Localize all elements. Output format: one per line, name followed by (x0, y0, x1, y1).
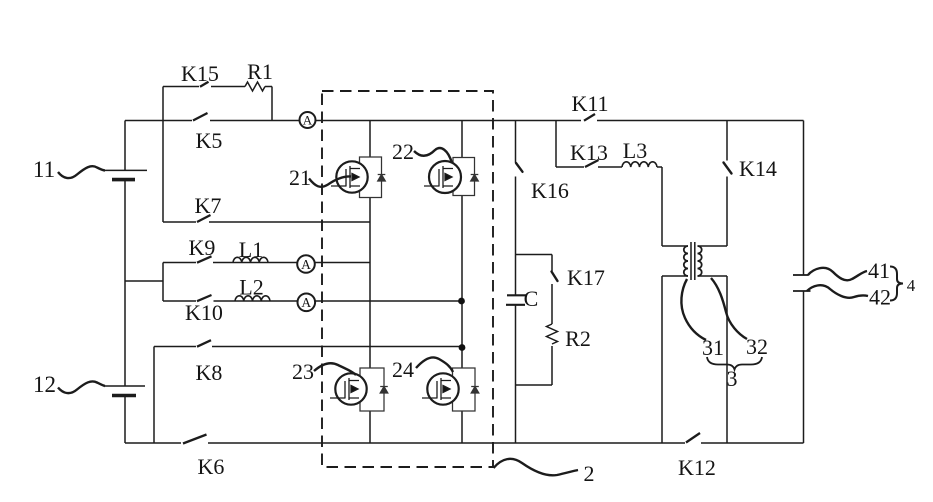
svg-text:2: 2 (584, 461, 595, 486)
battery 11 plates (105, 170, 147, 179)
transistor 22 (rect + diode) (453, 158, 478, 196)
svg-text:4: 4 (907, 276, 916, 295)
leader squiggle to 42 (807, 285, 868, 298)
output terminal 42 tick (793, 290, 811, 292)
transistor 23 circle + IGBT glyph (330, 373, 367, 404)
wire: K10 row to junction on right leg (163, 300, 462, 302)
svg-text:24: 24 (392, 357, 414, 382)
svg-text:32: 32 (746, 334, 768, 359)
svg-text:R1: R1 (247, 59, 273, 84)
wire: vertical x272 branch right leg (271, 87, 273, 121)
wire: bridge left leg (369, 121, 371, 444)
leader squiggle to 12 (58, 381, 105, 393)
wire: left rail (battery string) (124, 121, 126, 444)
switch K8 blade (197, 340, 211, 347)
transistor 21 circle + IGBT glyph (331, 161, 368, 192)
leader squiggle to 22 (414, 148, 452, 163)
leader squiggle to 24 (416, 357, 453, 372)
transistor 21 (rect + diode) (360, 157, 386, 198)
wire: fork stub from rail to K9/K10 rows (125, 263, 163, 302)
wire: K13/L3 row (556, 166, 662, 168)
switch K13 blade (585, 160, 599, 167)
inductor L3 (622, 162, 657, 167)
wire: right rail (803, 121, 805, 444)
leader squiggle to 32 (711, 278, 747, 339)
capacitor C plates (506, 295, 526, 305)
wire: K15/R1 precharge branch (163, 86, 272, 88)
transformer T primary winding (684, 246, 688, 276)
svg-text:K13: K13 (570, 140, 608, 165)
switch K14 blade (724, 163, 732, 174)
wire: K7 row (163, 221, 370, 223)
svg-text:K16: K16 (531, 178, 569, 203)
wire: L3 down to transformer primary (662, 167, 688, 246)
svg-text:A: A (301, 295, 311, 310)
switch K6 blade (183, 435, 207, 444)
junction dot: K8 row / right leg (459, 344, 466, 351)
switch K5 blade (193, 113, 208, 121)
leader squiggle to 11 (58, 166, 105, 178)
wire: K8 row to junction on right leg (154, 346, 462, 348)
svg-text:L2: L2 (239, 275, 263, 300)
transformer T core (691, 242, 695, 280)
dashed box: inverter unit 2 (322, 91, 493, 467)
svg-text:K11: K11 (571, 91, 608, 116)
leader squiggle to 41 (808, 268, 867, 280)
wire: primary return to bottom bus (662, 276, 688, 443)
svg-text:42: 42 (869, 285, 891, 310)
transformer T secondary winding (698, 246, 702, 276)
svg-text:K6: K6 (198, 454, 225, 479)
svg-text:A: A (303, 112, 313, 127)
wire: K17/R2 parallel branch (516, 255, 553, 386)
svg-text:3: 3 (727, 366, 738, 391)
wire: vertical x154 K8 row to bottom bus (153, 347, 155, 444)
ammeter A2 (K10 row) (298, 294, 316, 312)
ammeter A1 (K9 row) (297, 255, 315, 273)
resistor R1 (245, 82, 265, 91)
ammeter A3 (top bus) (300, 112, 316, 128)
svg-text:K5: K5 (196, 128, 223, 153)
output terminal 41 tick (793, 274, 809, 276)
svg-text:A: A (301, 257, 311, 272)
svg-text:R2: R2 (565, 326, 591, 351)
leader squiggle to 23 (314, 363, 356, 375)
battery 12 plates (105, 386, 145, 396)
wire: bottom bus (125, 442, 804, 444)
transistor 23 (rect + diode) (360, 368, 388, 411)
switch K15 blade (200, 82, 209, 87)
leader squiggle to 31 (681, 279, 706, 340)
svg-text:K15: K15 (181, 61, 219, 86)
svg-text:22: 22 (392, 139, 414, 164)
svg-text:21: 21 (289, 165, 311, 190)
svg-text:K10: K10 (185, 300, 223, 325)
transistor 24 circle + IGBT glyph (422, 373, 459, 404)
wire: top bus from left rail corner to right rail corner (125, 120, 804, 122)
svg-text:11: 11 (33, 157, 55, 182)
brace 4 right of 41/42 (890, 267, 903, 301)
switch K11 blade (top bus) (584, 114, 595, 121)
svg-text:L1: L1 (239, 237, 263, 262)
svg-text:K7: K7 (195, 193, 222, 218)
wire: secondary bottom to bottom bus (698, 276, 728, 443)
transistor 24 (rect + diode) (453, 368, 479, 411)
inductor L2 (235, 296, 270, 301)
junction dot: K10 row / right leg (458, 298, 465, 305)
svg-text:23: 23 (292, 359, 314, 384)
leader squiggle to 2 (494, 459, 579, 475)
svg-text:L3: L3 (623, 138, 647, 163)
switch K9 blade (197, 256, 212, 262)
svg-text:K8: K8 (196, 360, 223, 385)
svg-text:K17: K17 (567, 265, 605, 290)
svg-text:41: 41 (868, 258, 890, 283)
svg-text:31: 31 (702, 335, 724, 360)
wire: vertical x163 from branch to K7 row (162, 87, 164, 223)
brace 3 under 31/32 (707, 357, 762, 370)
wire: K16 branch vertical (515, 121, 517, 444)
svg-text:K14: K14 (739, 156, 777, 181)
inductor L1 (233, 257, 268, 262)
transistor 22 circle + IGBT glyph (424, 161, 461, 193)
switch K12 blade (686, 433, 700, 443)
svg-text:K12: K12 (678, 455, 716, 480)
switch K10 blade (197, 295, 212, 301)
wire: bridge right leg (461, 121, 463, 444)
wire: K9 row (163, 262, 370, 264)
svg-text:C: C (524, 286, 539, 311)
leader squiggle to 21 (309, 176, 351, 186)
resistor R2 (547, 324, 558, 344)
wire: K13 branch vertical tap (555, 121, 557, 168)
svg-text:K9: K9 (189, 235, 216, 260)
switch K17 blade (552, 272, 558, 282)
switch K7 blade (197, 215, 211, 222)
svg-text:12: 12 (33, 372, 56, 397)
wire: secondary top to K14 branch (698, 121, 728, 247)
switch K16 blade (516, 163, 523, 172)
